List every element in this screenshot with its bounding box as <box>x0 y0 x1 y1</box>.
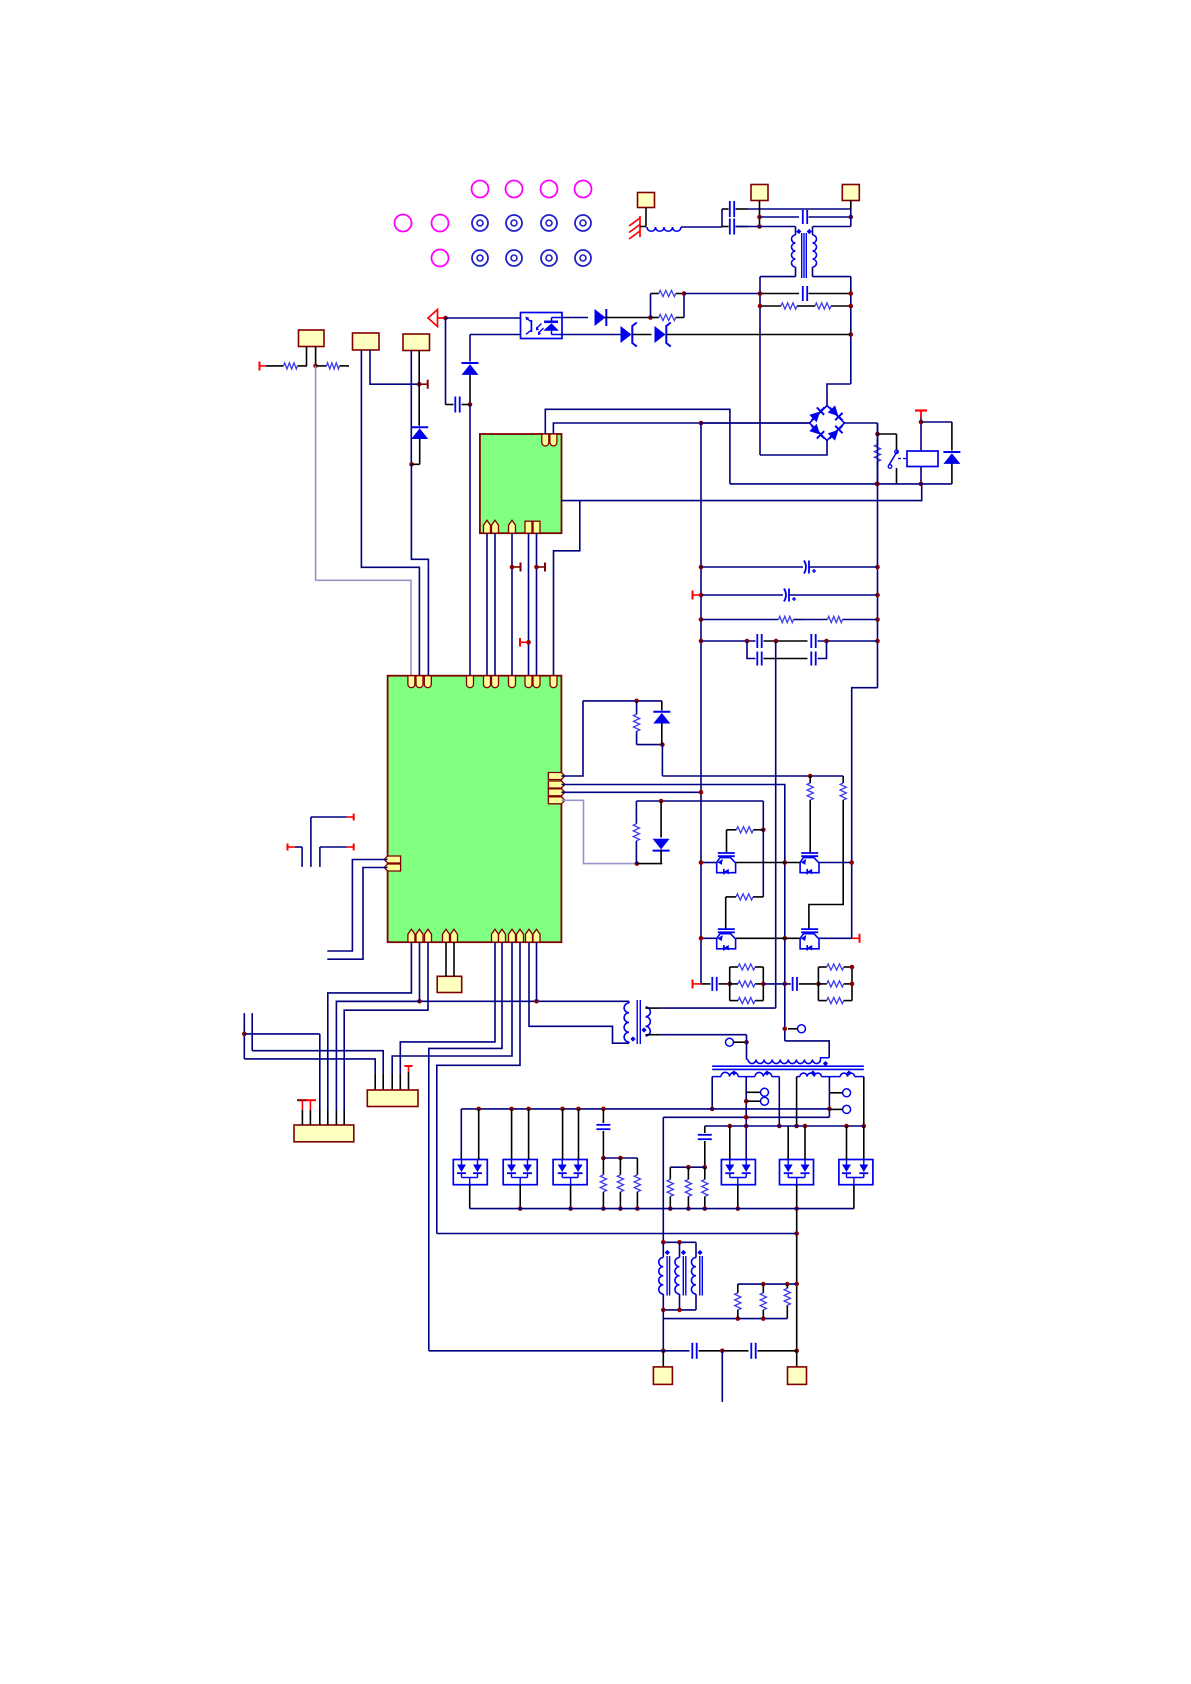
wire combo1 bottom <box>661 745 663 776</box>
mounting hole magenta row3 <box>432 250 449 267</box>
wire primary right drop <box>785 1041 829 1058</box>
connector J10 <box>796 1351 798 1367</box>
wire U1 bottom pins down <box>486 533 488 676</box>
no-connect flag conn4 p5 <box>404 1065 412 1067</box>
wire diode box entries right <box>729 1126 731 1160</box>
stub net2 <box>353 844 355 851</box>
wire L1 to C1 <box>681 226 722 228</box>
power flag relay <box>915 409 927 411</box>
wire U2 b411 route <box>328 942 412 1110</box>
signal arrow <box>428 310 438 327</box>
capacitor C6 row2 <box>701 594 783 596</box>
connector J4 <box>299 330 325 347</box>
common-mode choke T1 <box>795 227 797 236</box>
wire J1 lead <box>645 208 647 227</box>
wire center stub <box>721 1351 723 1402</box>
diode module D13 <box>780 1160 814 1185</box>
wire T3 gate <box>725 897 727 929</box>
IGBT Q1 <box>718 852 735 854</box>
no-connect flag U1b5 <box>534 565 539 570</box>
wire conn4 p1 net <box>244 1059 375 1074</box>
wire J6 lead1 <box>410 351 412 465</box>
capacitor C8 row4b <box>810 634 812 648</box>
stub net1 <box>353 814 355 821</box>
wire choke bottom <box>760 276 796 278</box>
wire secA left drop <box>711 1077 713 1109</box>
wire U2 b536 net <box>336 1000 629 1002</box>
capacitor C4 <box>445 318 447 405</box>
IGBT Q4 <box>801 928 818 930</box>
pad holes blue row2 <box>472 215 488 231</box>
wire line3 left <box>736 226 796 228</box>
wire gate feed1 <box>762 801 764 830</box>
test point TP6 <box>843 1105 851 1113</box>
wire gate feed2 <box>762 830 764 897</box>
transformer T2 <box>624 1003 629 1042</box>
optocoupler U3 <box>521 313 563 339</box>
diode module D14 <box>839 1160 873 1185</box>
wire box exits <box>469 1185 471 1209</box>
wire T2 sec bottom <box>646 1034 661 1036</box>
wire J6 net down <box>411 464 428 676</box>
wire bridge bottom <box>760 441 827 456</box>
wire U2 b428 route <box>344 942 428 1110</box>
resistor R14 <box>809 776 811 782</box>
U2 bottom pins <box>408 929 415 942</box>
diode D5 <box>462 362 479 364</box>
wire U2 pinR1 <box>561 701 583 776</box>
resistor R10 <box>636 701 638 714</box>
wire line1 <box>748 208 851 210</box>
capacitor C1b <box>722 226 729 228</box>
diode D4 <box>411 426 428 428</box>
mounting holes magenta row2 <box>395 215 412 232</box>
J8 pin stubs <box>301 1110 303 1125</box>
resistor R8 <box>701 619 779 621</box>
connector J8 <box>294 1125 354 1142</box>
pad holes blue row3 <box>472 250 488 266</box>
wire T2 gate <box>809 801 811 853</box>
wire box5 exit long <box>796 1185 798 1351</box>
resistor R11 <box>635 801 637 824</box>
wire J5 lead1 <box>361 350 419 676</box>
wire relay bottom <box>730 483 952 485</box>
resistor R6 <box>316 365 327 367</box>
wire snubber mid <box>763 983 791 985</box>
wire J6 lead2 <box>418 351 420 385</box>
inductor L1 <box>647 227 681 231</box>
wire relay rail <box>877 423 879 444</box>
capacitor C1a <box>722 208 729 210</box>
lavender net PE <box>316 366 411 676</box>
test point TP2 <box>798 1025 806 1033</box>
resistor R15 <box>842 776 844 782</box>
wire R10 jog <box>637 744 663 746</box>
wire line secondary common <box>663 1116 829 1118</box>
wire jog right bus <box>852 688 878 939</box>
wire U2 left pin1 <box>327 860 387 952</box>
wire U1p2 up <box>553 423 809 434</box>
wire conn4 p3 net <box>392 942 512 1073</box>
capacitor C9 branch <box>747 641 756 659</box>
transformer T4 secondary B <box>797 1076 800 1078</box>
resistor R7 <box>877 440 879 445</box>
diode D7 <box>661 701 663 711</box>
bridge rectifier BR1 <box>810 406 845 441</box>
diode D1 <box>595 309 606 326</box>
wire CT common <box>663 1318 787 1320</box>
wire U2 b419 route <box>336 1001 419 1110</box>
diode module D10 <box>503 1160 537 1185</box>
IGBT Q3 <box>718 928 735 930</box>
connector J1 <box>638 193 655 208</box>
wire bus V1 <box>700 423 702 984</box>
test point TP4 <box>761 1097 769 1105</box>
wire CT bottoms <box>663 1309 696 1311</box>
capacitor C11 <box>701 983 711 985</box>
wire opto out bottom <box>562 334 621 336</box>
load resistors R22-R24 <box>603 1157 637 1159</box>
wire J2 lead <box>759 201 761 227</box>
no-connect flag <box>419 383 428 385</box>
diode module D9 <box>453 1160 487 1185</box>
wire bus right <box>877 423 879 688</box>
resistor R4 <box>651 317 659 319</box>
connector J9 <box>662 1351 664 1367</box>
IC module U1 <box>480 434 562 533</box>
wire J5 lead2 <box>370 350 419 384</box>
no-connect flag J8 p2 <box>306 1099 317 1101</box>
wire line2 <box>760 216 800 218</box>
wire U2 b529 route <box>529 942 629 1043</box>
diode D6 <box>951 422 953 451</box>
U2 right pins <box>548 773 565 780</box>
capacitor C12 <box>792 977 794 991</box>
wire J3 lead <box>850 201 852 210</box>
wire R6 stub <box>341 365 349 367</box>
wire bridge feed <box>827 384 851 405</box>
wire T1 gate <box>726 830 728 853</box>
wire U2 left pin2 <box>327 868 387 960</box>
load resistors R25-R26 <box>670 1166 705 1168</box>
wire x775 riser <box>775 641 777 1008</box>
capacitor C7 row4a <box>701 640 756 642</box>
wire combo2 bottom <box>637 863 662 865</box>
diode module D11 <box>553 1160 587 1185</box>
resistor R1 <box>760 305 781 307</box>
zener D2 <box>621 326 632 343</box>
connector J2 <box>751 185 768 201</box>
resistor R3 <box>651 293 659 295</box>
no-connect flag Q4 <box>852 937 860 939</box>
wire J4 leads <box>306 347 308 366</box>
resistor R2 <box>806 305 815 307</box>
wire U1p1 up <box>545 409 730 484</box>
wire U2 b520 route <box>437 942 520 1233</box>
wire rail A <box>461 1108 829 1110</box>
wire secA right drop <box>778 1077 780 1126</box>
wire rail B <box>705 1125 864 1127</box>
test point TP5 <box>843 1089 851 1097</box>
wire rail C <box>470 1208 854 1210</box>
capacitor C14 <box>602 1109 604 1123</box>
wire D5 to U2 pin <box>469 405 471 677</box>
wire line3 right <box>813 226 851 228</box>
wire bridge right <box>845 422 878 424</box>
wire U2 b502 route <box>429 942 502 1351</box>
capacitor C5 row1 <box>701 566 803 568</box>
wire bridge left <box>701 422 810 424</box>
current transformers T5-T7 <box>663 1241 696 1243</box>
no-connect flag J8 p1 <box>297 1099 308 1101</box>
wire U1 pinA route <box>562 500 580 502</box>
capacitor C15 <box>691 1343 693 1359</box>
wire secB right drop <box>863 1077 865 1126</box>
diode D8 <box>660 801 662 838</box>
resistor R5 <box>266 365 284 367</box>
transformer T4 core <box>712 1065 864 1067</box>
no-connect flag U1b3 <box>510 565 515 570</box>
U1 top pins <box>542 434 549 446</box>
zener D3 <box>655 326 666 343</box>
connector J7 <box>367 1090 418 1107</box>
wire relay power <box>920 418 922 484</box>
wire T2 sec top <box>646 1007 661 1009</box>
diode module D12 <box>721 1160 755 1185</box>
wire rail E <box>437 1233 797 1235</box>
U2 left pins <box>384 856 401 863</box>
wire secA tap drop <box>745 1077 747 1160</box>
connector J6 <box>403 334 430 351</box>
wire R3R4 frame <box>650 294 652 318</box>
U2 top pins <box>408 676 415 688</box>
switch SW1 <box>878 433 897 435</box>
wire secB left drop <box>796 1077 798 1108</box>
transformer T4 secondary A <box>712 1076 721 1078</box>
wire opto in <box>446 317 521 319</box>
transformer T4 primary <box>747 1059 749 1061</box>
wire secB tap drop <box>828 1077 830 1118</box>
wire U2 pinR3 <box>561 791 701 793</box>
snubber resistors R16-R18 <box>729 967 731 1001</box>
wire rail D <box>429 1350 690 1352</box>
damping resistors R27-R29 <box>738 1283 797 1285</box>
connector J5 <box>353 333 380 350</box>
wire combo2 rail <box>636 800 763 802</box>
capacitor C3 <box>760 293 799 295</box>
power flag left <box>259 362 261 371</box>
capacitor C16 <box>750 1343 752 1359</box>
stub net3 <box>287 844 289 851</box>
wire combo1 rail <box>583 700 662 702</box>
resistor R12 <box>727 829 737 831</box>
crystal Y1 <box>437 976 462 992</box>
wire conn4 p2 net <box>251 1013 253 1051</box>
wire U2 pinR2 <box>561 785 784 1041</box>
no-connect flag U1b4 <box>526 640 531 645</box>
mounting holes magenta row1 <box>472 181 489 198</box>
U1 bottom pins <box>484 520 491 533</box>
test point TP1 <box>726 1038 734 1046</box>
wire opto out top <box>562 317 588 319</box>
IGBT Q2 <box>801 852 818 854</box>
test point TP3 <box>761 1088 769 1096</box>
wire conn4 p4 net <box>400 942 495 1073</box>
connector J3 <box>842 185 859 201</box>
snubber resistors R19-R21 <box>817 967 819 1001</box>
wire collector rail Q1Q2 <box>701 862 717 864</box>
wire primary left drop <box>746 1035 748 1060</box>
resistor R9 <box>804 619 828 621</box>
no-connect flag V1 bottom <box>693 983 702 985</box>
capacitor C10 branch <box>810 652 812 666</box>
wire diode box entries left <box>460 1109 462 1160</box>
resistor R13 <box>726 896 736 898</box>
power flag row2 <box>693 594 702 596</box>
wire U2 pinR4 lavender <box>561 800 637 863</box>
chassis ground <box>639 216 641 237</box>
IC module U2 <box>388 676 562 943</box>
wire line2b <box>809 216 851 218</box>
wire opto to D5 <box>470 334 521 336</box>
relay coil K1 <box>907 451 938 467</box>
capacitor C13 <box>704 1126 706 1133</box>
wire conn3 p3 net <box>243 1013 245 1059</box>
wire T4 gate <box>809 801 843 929</box>
capacitor C2 <box>802 210 804 224</box>
wire collector rail Q3Q4 <box>701 937 717 939</box>
